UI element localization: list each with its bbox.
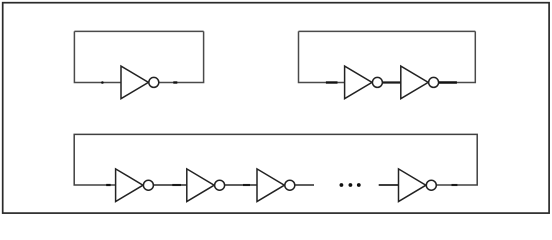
ellipsis dot 3	[357, 183, 361, 187]
ellipsis dot 1	[340, 183, 344, 187]
node U7 output pin end	[452, 184, 458, 186]
ellipsis dot 2	[349, 183, 353, 187]
node U3 output pin	[439, 81, 457, 83]
inverter U4	[116, 169, 154, 202]
wire loop3 feedback	[74, 134, 477, 185]
node U4 input pin end	[106, 184, 110, 186]
wire loop2 feedback	[299, 31, 476, 82]
inverter U1	[121, 66, 159, 99]
wire loop1 feedback	[74, 31, 203, 82]
inverter U3	[401, 66, 439, 99]
wire U4 output to U5 input	[154, 184, 187, 186]
wire U7 input stub	[379, 184, 399, 186]
inverter U2	[345, 66, 383, 99]
inverter U6	[257, 169, 295, 202]
inverter U7	[399, 169, 437, 202]
wire U2 output to U3 input	[383, 81, 401, 83]
node U5 input pin end	[172, 184, 181, 186]
node U1 output pin end	[173, 81, 177, 83]
node U2 input pin	[326, 81, 338, 83]
node U6 input pin end	[243, 184, 250, 186]
inverter U5	[187, 169, 225, 202]
wire U6 output stub	[295, 184, 314, 186]
node U1 input pin end	[101, 81, 104, 84]
wire U5 output to U6 input	[225, 184, 257, 186]
